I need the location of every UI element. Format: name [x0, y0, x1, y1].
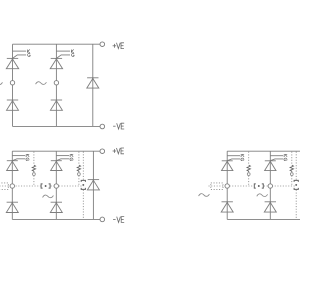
label K thyristor leg1 (rotated)	[26, 155, 29, 157]
label G thyristor leg2 (rotated)	[70, 158, 73, 161]
thyristor leg1	[6, 51, 26, 69]
label +VE	[113, 148, 124, 154]
label G thyristor leg1	[28, 53, 31, 56]
label K thyristor leg2 (rotated)	[70, 155, 73, 157]
thyristor leg2	[265, 156, 284, 171]
thyristor leg1	[222, 156, 241, 171]
snubber RC branch leg1 (dashed)	[32, 152, 35, 186]
wire leg 2	[55, 151, 57, 219]
connector symbol on AC line	[41, 184, 50, 188]
terminal -VE	[100, 124, 105, 129]
terminal -VE	[100, 217, 105, 222]
AC tilde symbol	[43, 195, 54, 198]
AC tilde symbol near node1 (clipped at edge)	[0, 82, 3, 85]
label G thyristor leg2	[71, 53, 74, 56]
label -VE	[113, 123, 124, 129]
snubber RC branch leg2 (dashed)	[77, 152, 80, 186]
terminal +VE	[100, 149, 105, 154]
dashed AC line to vertical tap	[264, 185, 296, 187]
label K thyristor leg1 (rotated)	[241, 155, 244, 157]
diode leg1 lower	[221, 201, 233, 212]
freewheel diode leg3	[87, 179, 99, 190]
dashed AC line stub into box	[209, 185, 226, 187]
wire bottom rail -VE bus	[13, 125, 101, 127]
label G thyristor leg2 (rotated)	[284, 158, 287, 161]
label +VE	[113, 43, 124, 49]
thyristor leg1	[7, 156, 26, 171]
thyristor leg2	[50, 51, 70, 69]
dashed AC line node1 to vertical tap	[51, 185, 84, 187]
wire leg 1	[11, 151, 13, 219]
dashed vertical tap line upper	[82, 152, 84, 180]
AC tilde symbol near node1	[199, 194, 210, 197]
AC node terminal leg2	[54, 184, 58, 188]
label K thyristor leg2	[71, 50, 73, 53]
wire top rail +VE bus	[227, 150, 300, 152]
AC node terminal leg1	[225, 184, 229, 188]
snubber RC branch leg2 (dashed)	[290, 152, 293, 186]
connector symbol vertical	[81, 180, 85, 189]
dashed gate terminal box at left edge	[0, 183, 8, 190]
dashed gate terminal box	[211, 183, 223, 190]
dashed AC line to node1	[0, 185, 41, 187]
diode leg1 lower	[6, 202, 18, 213]
connector symbol vertical	[294, 180, 298, 189]
freewheel diode leg3	[87, 77, 99, 88]
dashed vertical tap line lower	[82, 190, 84, 220]
wire leg 1	[12, 44, 14, 126]
wire bottom rail -VE bus	[227, 218, 300, 220]
connector symbol on AC line	[254, 184, 263, 188]
wire leg 2	[55, 44, 57, 126]
label -VE	[113, 217, 124, 223]
snubber RC branch leg1 (dashed)	[247, 152, 250, 186]
dashed AC line node1 to connector	[230, 185, 254, 187]
dashed vertical tap line upper	[295, 152, 297, 180]
dashed vertical tap line lower	[295, 190, 297, 220]
AC node terminal leg2	[268, 184, 272, 188]
wire top rail +VE bus	[12, 150, 100, 152]
thyristor leg2	[51, 156, 70, 171]
wire leg 3	[92, 151, 94, 219]
diode leg2 lower	[50, 202, 62, 213]
diode leg2 lower	[264, 201, 276, 212]
label K thyristor leg1	[28, 50, 30, 53]
AC node terminal leg2	[54, 81, 58, 85]
AC tilde symbol near node2	[36, 82, 47, 85]
label G thyristor leg1 (rotated)	[241, 158, 244, 161]
label K thyristor leg2 (rotated)	[284, 155, 287, 157]
AC tilde symbol	[257, 194, 268, 197]
AC node terminal leg1	[10, 184, 14, 188]
label G thyristor leg1 (rotated)	[26, 158, 29, 161]
wire top rail +VE bus	[13, 43, 101, 45]
terminal +VE	[100, 42, 105, 47]
wire leg 1	[226, 151, 228, 219]
diode leg1 lower	[7, 100, 19, 111]
AC node terminal leg1	[10, 81, 14, 85]
wire leg 3	[92, 44, 94, 126]
wire leg 2	[269, 151, 271, 219]
wire bottom rail -VE bus	[12, 218, 100, 220]
diode leg2 lower	[50, 100, 62, 111]
